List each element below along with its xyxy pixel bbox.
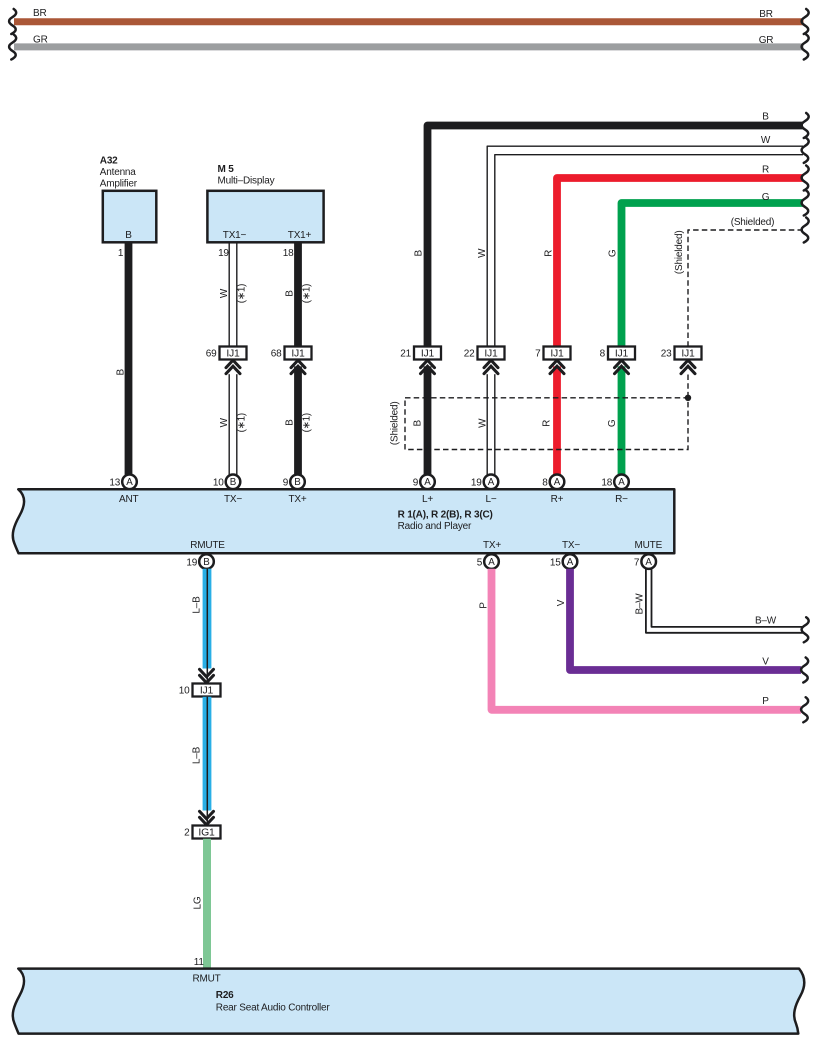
svg-text:10: 10 xyxy=(179,686,190,697)
radio pin 18 A - R- xyxy=(601,475,628,490)
shield drain from IJ1 23 to shield box xyxy=(687,375,689,398)
svg-text:R: R xyxy=(762,165,769,176)
wire B from M5 pin 18 to IJ1 68 xyxy=(294,242,302,346)
svg-text:A: A xyxy=(567,557,574,568)
wire BR (brown trunk) xyxy=(14,18,804,25)
wire L-B from IJ1 10 to IG1 2 xyxy=(203,697,212,825)
component M5 Multi-Display xyxy=(207,164,323,242)
wire B-W from radio pin 7 MUTE xyxy=(646,569,803,633)
chevron IJ1 23 xyxy=(681,360,695,374)
svg-text:R: R xyxy=(542,420,553,427)
svg-text:(Shielded): (Shielded) xyxy=(674,231,685,275)
svg-text:Multi–Display: Multi–Display xyxy=(218,175,275,186)
svg-text:69: 69 xyxy=(206,349,217,360)
break symbol W right xyxy=(802,138,809,163)
svg-text:Radio and Player: Radio and Player xyxy=(398,521,472,532)
break symbol B right xyxy=(802,113,809,138)
svg-text:L+: L+ xyxy=(422,494,433,505)
svg-text:IJ1: IJ1 xyxy=(550,349,564,360)
svg-text:B–W: B–W xyxy=(635,593,646,615)
svg-text:G: G xyxy=(762,192,770,203)
svg-text:11: 11 xyxy=(194,957,205,968)
radio pin 15 A - TX- xyxy=(550,554,577,569)
wire R from IJ1 7 to radio pin 8 R+ xyxy=(553,366,561,475)
svg-text:R26: R26 xyxy=(216,990,234,1001)
chevron IJ1 21 xyxy=(421,360,435,374)
svg-text:TX+: TX+ xyxy=(483,540,501,551)
break symbol G right xyxy=(802,191,809,216)
svg-text:L–B: L–B xyxy=(192,596,203,614)
svg-text:A: A xyxy=(488,557,495,568)
svg-text:IJ1: IJ1 xyxy=(291,349,305,360)
wire P from radio pin 5 TX+ xyxy=(492,569,802,710)
svg-text:2: 2 xyxy=(184,828,190,839)
break symbol BR right xyxy=(802,9,809,34)
svg-text:ANT: ANT xyxy=(119,494,138,505)
svg-text:V: V xyxy=(762,657,769,668)
chevron IG1 2 xyxy=(200,811,214,825)
radio pin 9 B - TX+ xyxy=(283,475,305,490)
radio pin 19 B - RMUTE xyxy=(186,554,213,569)
svg-text:IJ1: IJ1 xyxy=(421,349,435,360)
component A32 Antenna Amplifier xyxy=(100,155,157,242)
break symbol GR left xyxy=(9,35,16,60)
svg-text:B: B xyxy=(413,420,424,427)
svg-text:A: A xyxy=(645,557,652,568)
svg-text:18: 18 xyxy=(283,248,294,259)
break symbol V right xyxy=(801,658,808,683)
break symbol BR left xyxy=(9,9,16,34)
svg-text:TX1−: TX1− xyxy=(223,230,247,241)
svg-text:B: B xyxy=(125,230,132,241)
svg-text:BR: BR xyxy=(33,8,47,19)
svg-text:W: W xyxy=(477,248,488,258)
svg-text:TX−: TX− xyxy=(224,494,242,505)
svg-text:B: B xyxy=(285,290,296,297)
svg-text:68: 68 xyxy=(271,349,282,360)
radio pin 13 A - ANT xyxy=(109,475,136,490)
svg-text:7: 7 xyxy=(535,349,541,360)
svg-text:Antenna: Antenna xyxy=(100,167,136,178)
svg-text:9: 9 xyxy=(283,478,289,489)
svg-text:G: G xyxy=(607,419,618,427)
radio pin 5 A - TX+ xyxy=(477,554,499,569)
svg-text:(∗1): (∗1) xyxy=(301,284,312,303)
radio pin 7 A - MUTE xyxy=(634,554,656,569)
svg-text:B: B xyxy=(230,477,237,488)
wire B from A32 pin 1 to radio pin 13 xyxy=(125,243,133,476)
radio pin 19 A - L- xyxy=(471,475,498,490)
svg-text:W: W xyxy=(478,418,489,428)
svg-text:R−: R− xyxy=(615,494,628,505)
svg-text:(∗1): (∗1) xyxy=(237,413,248,432)
wire W trunk (double line) xyxy=(487,146,803,346)
svg-text:A: A xyxy=(488,477,495,488)
svg-text:18: 18 xyxy=(601,478,612,489)
connector IJ1 pin 68 xyxy=(271,347,312,360)
svg-text:21: 21 xyxy=(400,349,411,360)
svg-text:RMUTE: RMUTE xyxy=(190,540,225,551)
svg-text:A: A xyxy=(424,477,431,488)
shield box (dashed) around L/R wires xyxy=(405,398,688,450)
svg-text:TX−: TX− xyxy=(562,540,580,551)
svg-text:10: 10 xyxy=(213,478,224,489)
svg-text:23: 23 xyxy=(661,349,672,360)
svg-text:V: V xyxy=(556,599,567,606)
svg-text:(Shielded): (Shielded) xyxy=(731,217,775,228)
svg-text:R 1(A), R 2(B), R 3(C): R 1(A), R 2(B), R 3(C) xyxy=(398,510,493,521)
svg-text:8: 8 xyxy=(542,478,548,489)
svg-text:GR: GR xyxy=(759,35,774,46)
svg-text:IJ1: IJ1 xyxy=(484,349,498,360)
chevron IJ1 8 xyxy=(615,360,629,374)
svg-text:(Shielded): (Shielded) xyxy=(390,402,401,446)
component R1/R2/R3 Radio and Player xyxy=(13,489,675,553)
break symbol B-W right xyxy=(802,617,809,642)
connector IJ1 pin 23 xyxy=(661,347,702,360)
svg-text:G: G xyxy=(608,249,619,257)
wire R trunk xyxy=(557,178,803,347)
svg-text:1: 1 xyxy=(118,248,124,259)
svg-text:B: B xyxy=(294,477,301,488)
connector IJ1 pin 21 xyxy=(400,347,441,360)
svg-text:B: B xyxy=(203,557,210,568)
wire LG from IG1 2 to R26 pin 11 xyxy=(203,839,211,968)
svg-text:Rear Seat Audio Controller: Rear Seat Audio Controller xyxy=(216,1002,331,1013)
shield drain wire (dashed) trunk xyxy=(688,230,803,347)
chevron IJ1 68 xyxy=(291,360,305,374)
svg-text:L–B: L–B xyxy=(192,746,203,764)
svg-text:B: B xyxy=(285,419,296,426)
wire V from radio pin 15 TX- xyxy=(570,569,801,670)
svg-text:8: 8 xyxy=(600,349,606,360)
wire W from IJ1 69 to radio pin 10 xyxy=(229,374,237,475)
svg-text:IG1: IG1 xyxy=(198,828,215,839)
wire G from IJ1 8 to radio pin 18 R- xyxy=(618,366,626,475)
svg-text:15: 15 xyxy=(550,557,561,568)
svg-text:(∗1): (∗1) xyxy=(237,284,248,303)
svg-text:LG: LG xyxy=(193,896,204,909)
svg-text:IJ1: IJ1 xyxy=(681,349,695,360)
connector IG1 pin 2 xyxy=(184,826,220,839)
svg-text:B–W: B–W xyxy=(755,616,777,627)
svg-text:R+: R+ xyxy=(551,494,564,505)
svg-text:19: 19 xyxy=(218,248,229,259)
wire L-B from radio pin 19 to IJ1 10 xyxy=(203,569,212,683)
break symbol P right xyxy=(801,697,808,722)
break symbol R right xyxy=(802,166,809,191)
component R26 Rear Seat Audio Controller xyxy=(13,969,805,1034)
connector IJ1 pin 10 xyxy=(179,684,221,697)
connector IJ1 pin 69 xyxy=(206,347,247,360)
svg-text:IJ1: IJ1 xyxy=(200,686,214,697)
svg-text:BR: BR xyxy=(759,9,773,20)
svg-text:P: P xyxy=(762,696,769,707)
svg-text:7: 7 xyxy=(634,557,640,568)
svg-text:TX+: TX+ xyxy=(288,494,306,505)
radio pin 10 B - TX- xyxy=(213,475,240,490)
wire B from IJ1 21 to radio pin 9 L+ xyxy=(424,366,432,475)
break symbol shield right xyxy=(802,218,809,243)
svg-text:22: 22 xyxy=(464,349,475,360)
connector IJ1 pin 22 xyxy=(464,347,505,360)
svg-text:A: A xyxy=(554,477,561,488)
svg-text:B: B xyxy=(762,112,769,123)
svg-text:RMUT: RMUT xyxy=(192,974,220,985)
svg-text:W: W xyxy=(219,417,230,427)
svg-text:A: A xyxy=(126,477,133,488)
svg-text:L−: L− xyxy=(485,494,496,505)
radio pin 8 A - R+ xyxy=(542,475,564,490)
svg-text:IJ1: IJ1 xyxy=(226,349,240,360)
svg-text:R: R xyxy=(544,250,555,257)
svg-text:W: W xyxy=(761,135,771,146)
chevron IJ1 7 xyxy=(550,360,564,374)
junction dot shield box xyxy=(685,395,691,401)
svg-text:A32: A32 xyxy=(100,155,118,166)
connector IJ1 pin 7 xyxy=(535,347,570,360)
chevron IJ1 10 xyxy=(200,669,214,683)
svg-text:5: 5 xyxy=(477,557,483,568)
wire W from M5 pin 19 to IJ1 69 xyxy=(229,242,237,346)
svg-text:19: 19 xyxy=(186,557,197,568)
svg-text:Amplifier: Amplifier xyxy=(100,178,138,189)
svg-text:(∗1): (∗1) xyxy=(301,413,312,432)
svg-text:B: B xyxy=(115,369,126,376)
svg-text:13: 13 xyxy=(109,478,120,489)
wire W from IJ1 22 to radio pin 19 L- xyxy=(487,374,495,475)
wire B from IJ1 68 to radio pin 9 xyxy=(294,366,302,475)
chevron IJ1 69 xyxy=(226,360,240,374)
svg-text:19: 19 xyxy=(471,478,482,489)
svg-text:P: P xyxy=(479,602,490,609)
connector IJ1 pin 8 xyxy=(600,347,635,360)
svg-text:MUTE: MUTE xyxy=(635,540,663,551)
svg-text:M 5: M 5 xyxy=(218,164,235,175)
radio pin 9 A - L+ xyxy=(413,475,435,490)
svg-text:A: A xyxy=(618,477,625,488)
break symbol GR right xyxy=(802,35,809,60)
svg-text:9: 9 xyxy=(413,478,419,489)
wire G trunk xyxy=(622,203,804,347)
svg-text:TX1+: TX1+ xyxy=(288,230,312,241)
wire B trunk (top right) xyxy=(428,126,804,347)
svg-text:B: B xyxy=(414,250,425,257)
chevron IJ1 22 xyxy=(484,360,498,374)
wire GR (gray trunk) xyxy=(14,43,804,50)
svg-text:W: W xyxy=(219,288,230,298)
svg-text:GR: GR xyxy=(33,35,48,46)
svg-text:IJ1: IJ1 xyxy=(615,349,629,360)
